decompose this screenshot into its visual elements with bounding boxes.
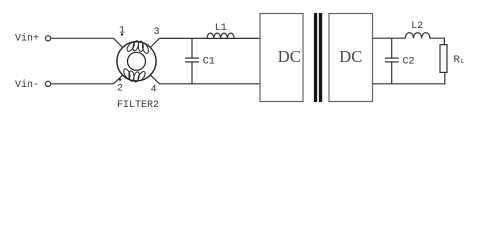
svg-text:DC: DC [278, 47, 301, 66]
terminal Vin- [45, 81, 50, 86]
svg-text:Vin+: Vin+ [15, 33, 39, 45]
inductor L2 [405, 33, 430, 39]
pin 1 polarity dot [121, 33, 123, 35]
svg-text:3: 3 [154, 27, 160, 38]
wire [51, 37, 114, 39]
svg-text:C2: C2 [403, 57, 415, 68]
svg-text:FILTER2: FILTER2 [117, 100, 159, 111]
transformer isolation bar right [319, 13, 322, 102]
common-mode choke FILTER2 [117, 40, 156, 83]
wire bottom rail DC2 to RL [373, 83, 446, 85]
svg-text:2: 2 [117, 83, 123, 94]
inductor L1 [207, 33, 234, 38]
wire pin2 lead [114, 75, 123, 84]
wire [51, 83, 114, 85]
wire L2 to RL corner [430, 38, 445, 44]
svg-text:C1: C1 [203, 56, 215, 67]
transformer isolation bar left [314, 13, 317, 102]
wire pin1 lead [114, 38, 123, 47]
svg-text:4: 4 [151, 84, 157, 95]
resistor RL [440, 45, 447, 73]
capacitor C2 [385, 38, 399, 84]
DC converter block U2 [329, 14, 373, 102]
wire top rail choke to DC1 [160, 37, 261, 39]
capacitor C1 [185, 38, 199, 83]
svg-text:L: L [461, 58, 465, 65]
svg-text:1: 1 [119, 25, 125, 36]
wire pin3 lead [150, 38, 159, 47]
svg-text:L1: L1 [215, 23, 227, 34]
svg-text:Vin-: Vin- [15, 79, 39, 91]
wire bottom rail choke to DC1 [160, 83, 261, 85]
wire RL bottom lead [444, 72, 446, 83]
svg-text:DC: DC [339, 47, 362, 66]
terminal Vin+ [45, 36, 50, 41]
svg-text:L2: L2 [411, 21, 423, 32]
DC converter block U1 [260, 14, 303, 102]
svg-text:R: R [454, 54, 461, 66]
wire pin4 lead [150, 75, 159, 84]
pin 2 polarity dot [119, 78, 121, 80]
wire top rail DC2 to L2 [373, 37, 406, 39]
